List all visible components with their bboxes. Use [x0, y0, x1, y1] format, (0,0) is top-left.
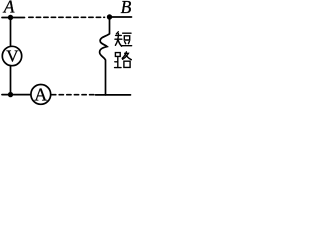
svg-text:A: A — [3, 0, 15, 17]
svg-text:A: A — [34, 84, 47, 104]
svg-text:B: B — [121, 0, 132, 17]
short-circuit wavy wire from B — [100, 17, 110, 95]
label 路 (circuit) hand-drawn glyph — [115, 52, 132, 68]
wire bottom solid to ammeter — [2, 94, 30, 96]
wire dashed after ammeter — [52, 94, 94, 96]
wire solid stub at B — [110, 16, 132, 18]
ammeter A circle — [31, 85, 51, 105]
label 短 (short) hand-drawn glyph — [115, 32, 132, 46]
wire left vertical lower — [10, 66, 12, 95]
wire bottom-right solid — [96, 94, 131, 96]
node B junction dot — [107, 14, 112, 19]
wire dashed A to B — [29, 16, 105, 18]
bottom-left junction dot — [8, 92, 13, 97]
voltmeter V circle — [2, 46, 21, 65]
svg-text:V: V — [6, 47, 19, 66]
wire left vertical upper — [10, 18, 12, 47]
wire solid stub at A — [2, 17, 25, 19]
node A junction dot — [8, 15, 13, 20]
